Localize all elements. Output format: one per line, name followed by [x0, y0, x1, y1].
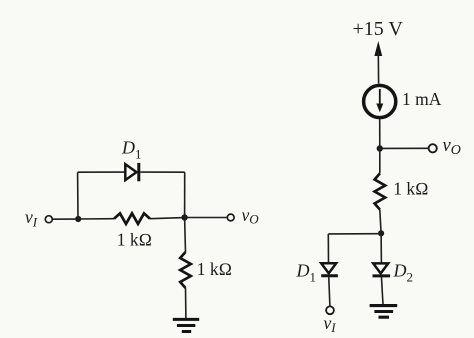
resistor R3 1kOhm — [375, 174, 386, 210]
wire resistor R3 to node D — [380, 210, 381, 234]
ground (right circuit) — [370, 306, 398, 318]
terminal vO (right circuit) — [429, 144, 437, 152]
wire node C to resistor R3 — [379, 149, 381, 174]
wire node A to resistor R1 — [78, 218, 114, 220]
wire left branch down to diode D1 — [327, 234, 329, 263]
wire resistor R1 to node B — [150, 218, 185, 219]
diode D1 (left circuit) — [125, 163, 139, 181]
ground (left circuit) — [173, 319, 199, 331]
wire resistor R2 to ground — [185, 288, 187, 318]
svg-text:+15 V: +15 V — [353, 18, 404, 40]
wire node B down to resistor R2 — [184, 218, 187, 253]
terminal vO (left circuit) — [227, 214, 234, 221]
resistor R1 1kOhm horizontal — [114, 213, 150, 224]
wire top right corner down to node B — [184, 172, 186, 217]
node A junction — [75, 216, 81, 222]
diode D1 (right circuit) — [321, 263, 338, 275]
node B junction — [181, 214, 187, 220]
wire diode D1 to vI terminal — [329, 276, 330, 306]
wire node B to vO terminal — [185, 217, 228, 219]
wire top left to diode — [78, 171, 126, 173]
wire vI to node A — [53, 218, 76, 220]
wire current source to node C — [379, 119, 381, 148]
svg-text:1 mA: 1 mA — [402, 89, 442, 109]
diode D2 — [373, 263, 391, 276]
power arrow up — [374, 41, 382, 84]
wire diode D2 to ground — [381, 276, 383, 305]
wire node D left branch horizontal — [328, 233, 381, 235]
node C junction — [377, 145, 383, 151]
terminal vI (left circuit) — [45, 216, 52, 223]
svg-text:1 kΩ: 1 kΩ — [393, 179, 428, 199]
current source I 1mA — [364, 85, 396, 117]
svg-text:1 kΩ: 1 kΩ — [197, 259, 232, 279]
terminal vI (right circuit) — [326, 306, 334, 314]
wire node A up — [77, 172, 79, 219]
wire node C to vO terminal — [380, 147, 429, 149]
svg-text:1 kΩ: 1 kΩ — [117, 229, 152, 249]
node D junction — [378, 230, 384, 236]
wire diode to top right corner — [140, 171, 184, 173]
resistor R2 1kOhm vertical — [180, 252, 191, 288]
wire node D down to diode D2 — [380, 233, 382, 263]
